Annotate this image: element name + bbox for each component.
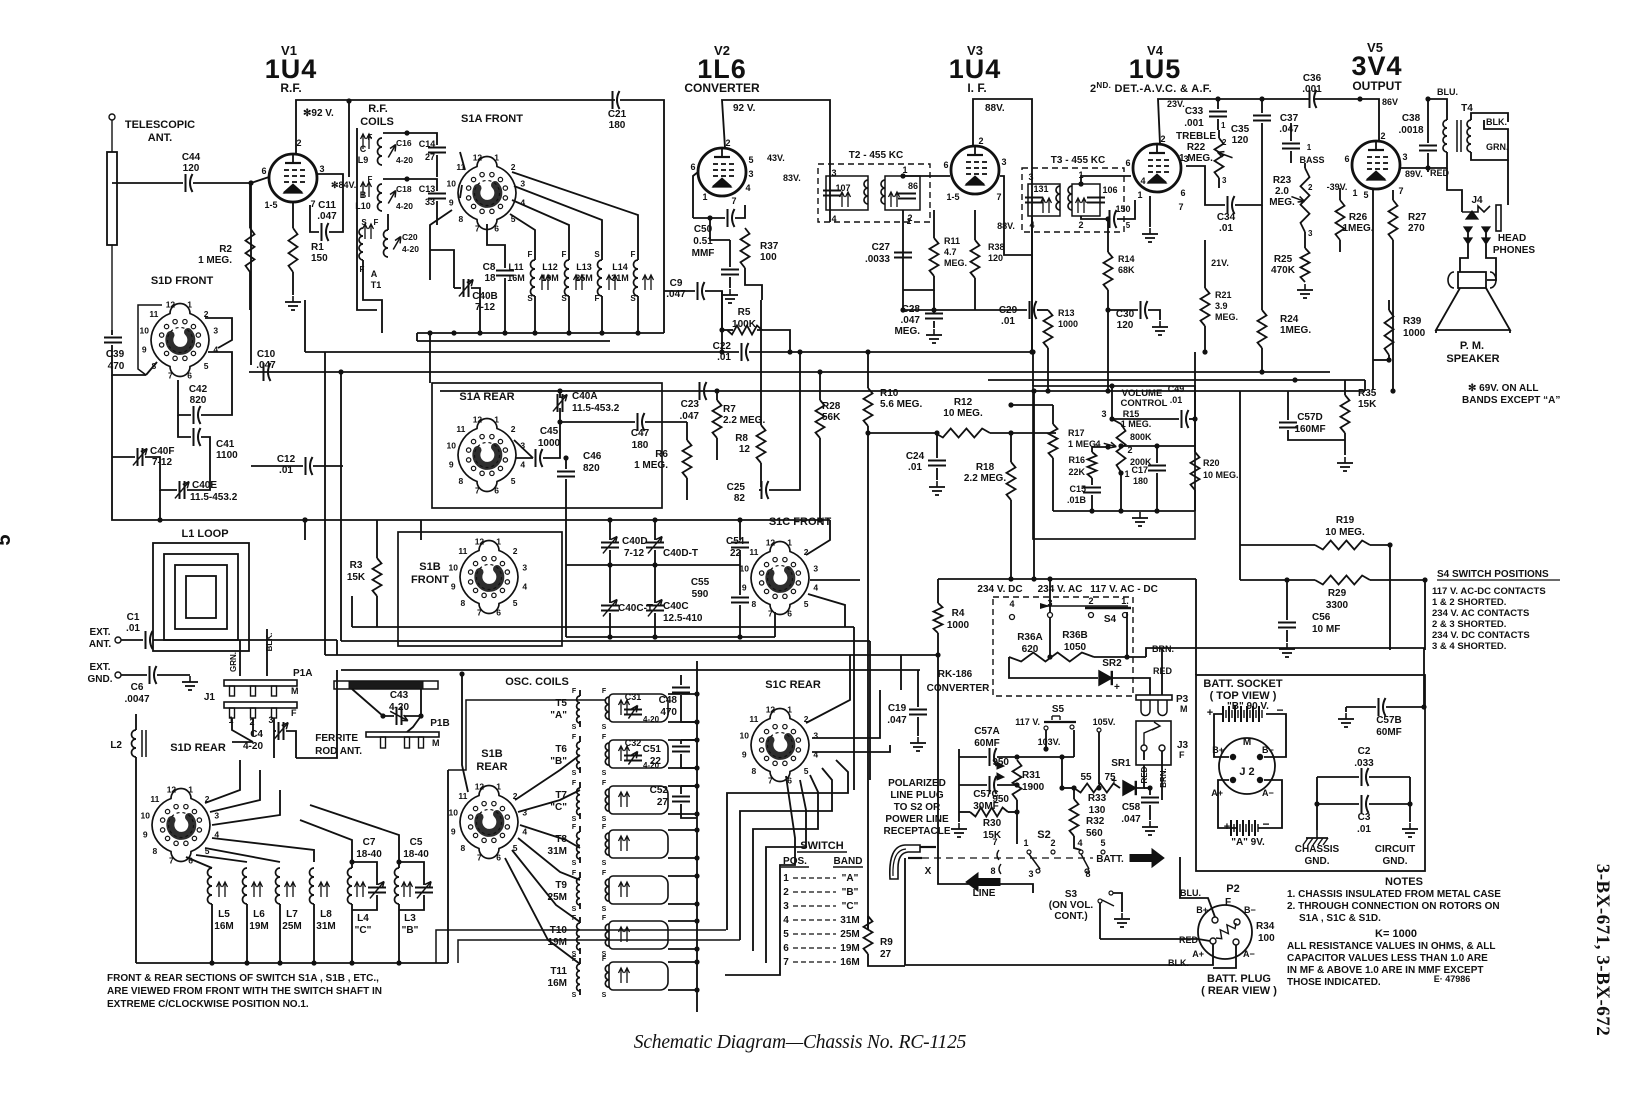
svg-text:C57B: C57B: [1376, 715, 1402, 726]
svg-text:22K: 22K: [1068, 467, 1085, 477]
svg-text:1: 1: [496, 781, 501, 791]
svg-text:.01: .01: [1170, 395, 1183, 405]
svg-text:S1D FRONT: S1D FRONT: [151, 275, 214, 287]
svg-text:F: F: [602, 780, 607, 787]
svg-text:10 MEG.: 10 MEG.: [1203, 470, 1239, 480]
svg-text:5: 5: [1100, 838, 1105, 848]
svg-text:3: 3: [522, 807, 527, 817]
svg-text:L8: L8: [320, 909, 332, 920]
resistor R28 56K: [816, 400, 825, 438]
svg-text:F: F: [631, 250, 636, 259]
resistor R17 1 MEG: [1049, 424, 1058, 458]
svg-text:16M: 16M: [507, 273, 525, 283]
svg-text:"B" 90 V.: "B" 90 V.: [1227, 701, 1269, 712]
svg-text:.001: .001: [1184, 118, 1204, 129]
svg-text:7: 7: [783, 957, 789, 968]
svg-text:S2: S2: [1037, 829, 1050, 841]
svg-text:1: 1: [1023, 838, 1028, 848]
svg-text:C2: C2: [1358, 746, 1371, 757]
svg-text:7: 7: [1178, 202, 1183, 212]
svg-text:1: 1: [494, 414, 499, 424]
wire bus B y372: [249, 371, 1330, 373]
svg-text:4.7: 4.7: [944, 247, 957, 257]
svg-text:MEG.: MEG.: [1269, 197, 1295, 208]
svg-text:1: 1: [1352, 188, 1357, 198]
resistor R10 5.6 MEG: [864, 388, 873, 426]
resistor R5 100K: [727, 326, 762, 335]
svg-text:ROD ANT.: ROD ANT.: [315, 746, 362, 757]
svg-text:9: 9: [742, 583, 747, 593]
svg-text:1: 1: [1124, 469, 1129, 479]
svg-text:C3: C3: [1358, 812, 1371, 823]
svg-text:TELESCOPIC: TELESCOPIC: [125, 119, 195, 131]
svg-text:OSC. COILS: OSC. COILS: [505, 676, 569, 688]
svg-text:2: 2: [783, 887, 789, 898]
svg-text:.0033: .0033: [865, 254, 890, 265]
svg-text:R14: R14: [1118, 254, 1135, 264]
svg-text:S1C REAR: S1C REAR: [765, 679, 821, 691]
svg-text:C19: C19: [888, 703, 907, 714]
resistor R25 470K: [1301, 248, 1310, 282]
svg-text:CIRCUIT: CIRCUIT: [1375, 844, 1416, 855]
resistor R30 15K: [970, 808, 1008, 817]
svg-text:6: 6: [1125, 158, 1130, 168]
svg-text:C40F: C40F: [150, 446, 174, 457]
svg-text:R21: R21: [1215, 290, 1232, 300]
resistor R21 3.9 MEG: [1201, 288, 1210, 326]
svg-text:C18: C18: [396, 184, 412, 194]
svg-text:3: 3: [1028, 172, 1033, 182]
svg-text:.01: .01: [1219, 223, 1233, 234]
resistor R26 1 MEG: [1336, 200, 1345, 240]
svg-text:31M: 31M: [840, 915, 859, 926]
svg-text:7: 7: [169, 856, 174, 866]
socket J2: [1219, 738, 1275, 794]
resistor R13 1000: [1044, 310, 1053, 348]
resistor R2 1 MEG: [246, 228, 255, 272]
svg-text:16M: 16M: [214, 921, 233, 932]
svg-text:2: 2: [725, 138, 730, 148]
svg-text:8: 8: [990, 866, 995, 876]
svg-text:S: S: [602, 860, 607, 867]
svg-text:C39: C39: [106, 349, 125, 360]
resistor R37 100: [741, 228, 750, 268]
svg-text:F: F: [595, 294, 600, 303]
svg-text:P2: P2: [1226, 883, 1239, 895]
svg-text:117 V.: 117 V.: [1015, 717, 1040, 727]
svg-text:C: C: [360, 144, 367, 154]
svg-text:3: 3: [522, 562, 527, 572]
svg-text:234 V. DC: 234 V. DC: [977, 584, 1022, 595]
svg-text:1 MEG.: 1 MEG.: [634, 460, 668, 471]
svg-text:M: M: [1180, 704, 1188, 714]
svg-text:R34: R34: [1256, 921, 1275, 932]
svg-text:3-BX-671, 3-BX-672: 3-BX-671, 3-BX-672: [1592, 864, 1613, 1037]
svg-text:R5: R5: [738, 307, 751, 318]
svg-text:L13: L13: [576, 262, 592, 272]
svg-text:LINE PLUG: LINE PLUG: [890, 790, 944, 801]
svg-text:10: 10: [449, 562, 459, 572]
svg-text:M: M: [432, 738, 440, 748]
svg-text:7: 7: [996, 192, 1001, 202]
svg-text:4: 4: [783, 915, 789, 926]
wire staircase bundle 4: [766, 780, 806, 963]
svg-text:60MF: 60MF: [974, 738, 1000, 749]
svg-text:.047: .047: [1279, 124, 1299, 135]
svg-text:TREBLE: TREBLE: [1176, 131, 1216, 142]
transformer T7 secondary winding: [609, 786, 668, 814]
svg-text:.047: .047: [887, 715, 907, 726]
svg-text:5: 5: [0, 534, 15, 545]
svg-text:SWITCH: SWITCH: [800, 840, 843, 852]
svg-text:620: 620: [1022, 644, 1039, 655]
svg-text:R29: R29: [1328, 588, 1347, 599]
svg-text:92 V.: 92 V.: [733, 103, 756, 114]
svg-text:R28: R28: [822, 401, 841, 412]
svg-text:C44: C44: [182, 152, 201, 163]
svg-text:25M: 25M: [282, 921, 301, 932]
switch S1B REAR: [460, 786, 518, 859]
svg-text:R31: R31: [1022, 770, 1041, 781]
capacitor C3 .01: [1361, 795, 1363, 813]
svg-text:2: 2: [513, 791, 518, 801]
svg-text:SR2: SR2: [1102, 658, 1122, 669]
svg-text:820: 820: [583, 463, 600, 474]
svg-text:2: 2: [1050, 838, 1055, 848]
svg-text:L12: L12: [542, 262, 558, 272]
svg-text:1: 1: [787, 537, 792, 547]
svg-text:270: 270: [1408, 223, 1425, 234]
svg-text:+: +: [1207, 707, 1213, 719]
wire junction down from C44 node: [250, 183, 252, 365]
svg-text:C40A: C40A: [572, 391, 598, 402]
svg-text:9: 9: [742, 750, 747, 760]
svg-text:8: 8: [751, 766, 756, 776]
capacitor C54 22: [731, 542, 749, 544]
svg-text:C33: C33: [1185, 106, 1204, 117]
svg-text:R13: R13: [1058, 308, 1075, 318]
svg-text:7: 7: [310, 199, 315, 209]
svg-text:C6: C6: [131, 682, 144, 693]
svg-text:8: 8: [460, 843, 465, 853]
transformer T8 secondary winding: [609, 830, 668, 858]
wire T5 to junction rail: [668, 693, 697, 695]
svg-text:BATT. PLUG: BATT. PLUG: [1207, 973, 1271, 985]
svg-text:C56: C56: [1312, 612, 1331, 623]
svg-text:7: 7: [731, 196, 736, 206]
svg-text:2: 2: [513, 546, 518, 556]
svg-text:2 & 3 SHORTED.: 2 & 3 SHORTED.: [1432, 619, 1506, 630]
svg-text:RED: RED: [1153, 666, 1173, 676]
svg-text:4: 4: [1140, 176, 1145, 186]
svg-text:L7: L7: [286, 909, 298, 920]
svg-text:12: 12: [166, 299, 176, 309]
svg-text:EXT.: EXT.: [89, 627, 110, 638]
wire V5 plate to T4: [1400, 152, 1447, 168]
svg-text:56K: 56K: [822, 412, 841, 423]
svg-text:"C": "C": [842, 901, 859, 912]
svg-text:5: 5: [1126, 221, 1131, 230]
wire V5 86V: [1360, 99, 1379, 141]
wire bass pot: [1304, 163, 1306, 168]
svg-text:S1C FRONT: S1C FRONT: [769, 516, 832, 528]
svg-text:TO S2 OR: TO S2 OR: [894, 802, 941, 813]
svg-text:S1B: S1B: [419, 561, 440, 573]
svg-text:3: 3: [319, 164, 324, 174]
svg-text:C40D-T: C40D-T: [663, 548, 698, 559]
svg-text:1L6: 1L6: [697, 54, 747, 84]
svg-text:C5: C5: [410, 837, 423, 848]
wire C40 top bus: [421, 519, 830, 521]
svg-text:7: 7: [475, 486, 480, 496]
svg-text:31M: 31M: [611, 273, 629, 283]
svg-text:C1: C1: [127, 612, 140, 623]
chassis ground symbol: [1316, 804, 1318, 830]
svg-text:F: F: [572, 870, 577, 877]
svg-text:NOTES: NOTES: [1385, 876, 1423, 888]
wires S1C REAR staircase: [806, 655, 850, 723]
svg-text:R38: R38: [988, 242, 1005, 252]
mechanical link dashed: [922, 857, 1093, 859]
svg-text:3 & 4 SHORTED.: 3 & 4 SHORTED.: [1432, 641, 1506, 652]
wire R27 bottom junction: [1392, 300, 1394, 391]
switch S4 dashed box: [993, 597, 1133, 696]
svg-text:1: 1: [188, 784, 193, 794]
svg-text:43V.: 43V.: [767, 153, 785, 163]
variable capacitor C40C 12.5-410: [646, 605, 664, 607]
svg-text:C17: C17: [1131, 465, 1148, 475]
svg-text:.0018: .0018: [1398, 125, 1423, 136]
resistor R11 4.7 MEG: [930, 238, 939, 276]
svg-text:+: +: [1111, 776, 1117, 787]
transformer T11 secondary winding: [609, 962, 668, 990]
svg-text:234 V. AC: 234 V. AC: [1038, 584, 1083, 595]
resistor R6 1 MEG: [683, 440, 692, 478]
svg-text:1000: 1000: [1058, 319, 1078, 329]
svg-text:T1: T1: [371, 280, 382, 290]
capacitor bypass below C50: [721, 269, 739, 271]
svg-text:2: 2: [1078, 220, 1083, 230]
svg-text:R27: R27: [1408, 212, 1427, 223]
svg-text:R8: R8: [735, 433, 748, 444]
svg-text:470K: 470K: [1271, 265, 1296, 276]
svg-text:4-20: 4-20: [402, 244, 419, 254]
svg-text:BANDS EXCEPT “A”: BANDS EXCEPT “A”: [1462, 395, 1560, 406]
svg-text:C20: C20: [402, 232, 418, 242]
svg-text:R1: R1: [311, 242, 324, 253]
ground below V4: [1149, 228, 1151, 234]
svg-text:MEG.: MEG.: [894, 326, 920, 337]
svg-text:19M: 19M: [249, 921, 268, 932]
svg-text:SPEAKER: SPEAKER: [1446, 353, 1499, 365]
svg-text:FRONT & REAR SECTIONS OF SWITC: FRONT & REAR SECTIONS OF SWITCH S1A , S1…: [107, 973, 379, 984]
svg-text:CONT.): CONT.): [1054, 911, 1087, 922]
wires S1C FRONT connections: [774, 612, 776, 637]
svg-text:1U4: 1U4: [265, 54, 318, 84]
svg-text:LINE: LINE: [973, 888, 996, 899]
svg-text:S3: S3: [1065, 889, 1078, 900]
svg-text:86V: 86V: [1382, 97, 1398, 107]
tube V3: [951, 146, 999, 194]
svg-text:R.F.: R.F.: [280, 81, 301, 95]
svg-text:25M: 25M: [840, 929, 859, 940]
svg-text:131: 131: [1033, 184, 1048, 194]
svg-text:1.: 1.: [1121, 596, 1129, 606]
svg-text:A−: A−: [1243, 949, 1255, 959]
capacitor C56 .001: [1309, 90, 1311, 108]
wire V3 88V rail: [973, 99, 1032, 352]
resistor R20 10 MEG: [1191, 452, 1200, 490]
wire C39 to S1D FRONT: [112, 352, 146, 375]
svg-text:11: 11: [149, 309, 158, 319]
svg-text:27: 27: [880, 949, 892, 960]
svg-text:FRONT: FRONT: [411, 574, 449, 586]
svg-text:1100: 1100: [216, 450, 238, 461]
wire V5 cathode bottom: [1372, 190, 1374, 390]
svg-text:8: 8: [458, 214, 463, 224]
svg-text:COILS: COILS: [360, 116, 394, 128]
svg-text:12: 12: [475, 781, 485, 791]
svg-text:5: 5: [1363, 190, 1368, 200]
capacitor C33 .001: [1209, 111, 1227, 113]
svg-text:7-12: 7-12: [624, 548, 644, 559]
svg-text:C16: C16: [396, 138, 412, 148]
wire left verticals to J1 area: [232, 741, 253, 743]
svg-text:C40B: C40B: [472, 291, 498, 302]
resistor R1 150: [289, 228, 298, 272]
svg-text:1: 1: [1307, 143, 1312, 152]
svg-text:2: 2: [978, 136, 983, 146]
wire antenna to C44: [112, 182, 183, 184]
transformer T5 secondary winding: [609, 694, 668, 722]
svg-text:19M: 19M: [541, 273, 559, 283]
svg-text:C21: C21: [608, 109, 627, 120]
svg-text:CONTROL: CONTROL: [1121, 398, 1168, 409]
svg-text:31M: 31M: [548, 846, 567, 857]
svg-text:1000: 1000: [538, 438, 561, 449]
svg-text:234 V. AC CONTACTS: 234 V. AC CONTACTS: [1432, 608, 1529, 619]
svg-text:BATT.: BATT.: [1096, 854, 1124, 865]
svg-text:BLK.: BLK.: [265, 633, 274, 652]
svg-text:F: F: [602, 915, 607, 922]
svg-text:10: 10: [140, 325, 150, 335]
svg-text:105V.: 105V.: [1093, 717, 1116, 727]
svg-text:150: 150: [311, 253, 328, 264]
svg-text:3: 3: [213, 325, 218, 335]
resistor R16 22K: [1088, 452, 1097, 478]
svg-text:103V.: 103V.: [1038, 737, 1061, 747]
svg-text:C58: C58: [1122, 802, 1141, 813]
wire staircase bundle 1: [727, 760, 848, 930]
svg-text:T3 - 455 KC: T3 - 455 KC: [1051, 155, 1105, 166]
svg-text:X: X: [925, 866, 932, 877]
svg-text:R2: R2: [219, 244, 232, 255]
svg-text:1. CHASSIS INSULATED FROM M: 1. CHASSIS INSULATED FROM METAL CASE: [1287, 889, 1501, 900]
svg-text:.01: .01: [908, 462, 922, 473]
svg-text:RECEPTACLE: RECEPTACLE: [883, 826, 950, 837]
resistor R29 3300: [1315, 576, 1370, 585]
svg-text:15K: 15K: [1358, 399, 1377, 410]
svg-text:-39V.: -39V.: [1327, 182, 1348, 192]
svg-text:2.2 MEG.: 2.2 MEG.: [964, 473, 1006, 484]
wire T4 secondary to headphones: [1471, 120, 1508, 160]
svg-text:F: F: [374, 218, 379, 227]
svg-text:THOSE INDICATED.: THOSE INDICATED.: [1287, 977, 1381, 988]
svg-text:4: 4: [745, 183, 750, 193]
svg-text:P. M.: P. M.: [1460, 340, 1484, 352]
svg-text:.01B: .01B: [1067, 495, 1087, 505]
svg-text:1-5: 1-5: [946, 192, 959, 202]
svg-text:7-12: 7-12: [152, 457, 172, 468]
svg-text:EXT.: EXT.: [89, 662, 110, 673]
svg-text:19M: 19M: [840, 943, 859, 954]
svg-text:F: F: [562, 250, 567, 259]
svg-text:88V.: 88V.: [985, 103, 1005, 114]
resistor R9 27: [864, 916, 873, 954]
svg-text:7: 7: [768, 776, 773, 786]
svg-text:PHONES: PHONES: [1493, 245, 1536, 256]
svg-text:60MF: 60MF: [1376, 727, 1402, 738]
svg-text:CONVERTER: CONVERTER: [927, 683, 991, 694]
svg-text:E· 47986: E· 47986: [1434, 974, 1471, 984]
svg-text:234 V. DC CONTACTS: 234 V. DC CONTACTS: [1432, 630, 1530, 641]
wire C44 to V1 grid: [193, 177, 269, 183]
wire C21 to S1A right rail: [620, 100, 664, 333]
svg-text:68K: 68K: [1118, 265, 1135, 275]
svg-text:S1A REAR: S1A REAR: [459, 391, 514, 403]
svg-text:B+: B+: [1196, 905, 1208, 915]
svg-text:2: 2: [511, 162, 516, 172]
capacitor C41 1100: [193, 428, 195, 446]
wires battery B to J2: [1214, 714, 1229, 757]
resistor R18 2.2 MEG: [1007, 462, 1016, 500]
svg-text:C4: C4: [250, 729, 263, 740]
svg-text:5: 5: [783, 929, 789, 940]
svg-text:C27: C27: [872, 242, 891, 253]
svg-text:23V.: 23V.: [1167, 99, 1185, 109]
svg-text:1050: 1050: [1064, 642, 1087, 653]
svg-text:106: 106: [1102, 185, 1117, 195]
svg-text:12: 12: [475, 536, 485, 546]
svg-text:F: F: [572, 780, 577, 787]
wire osc junction rail: [696, 661, 698, 1012]
svg-text:4: 4: [1077, 838, 1082, 848]
svg-text:117 V. AC - DC: 117 V. AC - DC: [1090, 584, 1158, 595]
wire T3 feed: [1031, 255, 1033, 352]
svg-text:4: 4: [522, 582, 527, 592]
wire bus y670: [341, 669, 920, 671]
svg-text:3V4: 3V4: [1351, 51, 1402, 81]
volume control box: [1033, 386, 1195, 539]
svg-text:6: 6: [496, 608, 501, 618]
svg-text:R35: R35: [1358, 388, 1377, 399]
svg-text:.01: .01: [126, 623, 140, 634]
svg-text:4: 4: [520, 460, 525, 470]
svg-text:C52: C52: [650, 785, 669, 796]
polarized plug X: [890, 845, 920, 879]
svg-text:C24: C24: [906, 451, 925, 462]
svg-text:C43: C43: [390, 690, 409, 701]
svg-text:"A": "A": [842, 873, 859, 884]
svg-text:1000: 1000: [947, 620, 970, 631]
svg-text:S4 SWITCH POSITIONS: S4 SWITCH POSITIONS: [1437, 569, 1549, 580]
svg-text:"B": "B": [842, 887, 859, 898]
svg-text:BLU.: BLU.: [1437, 87, 1458, 97]
svg-text:16M: 16M: [840, 957, 859, 968]
ground below C57D: [1344, 457, 1346, 463]
svg-text:2: 2: [296, 138, 301, 148]
svg-text:R30: R30: [983, 818, 1002, 829]
